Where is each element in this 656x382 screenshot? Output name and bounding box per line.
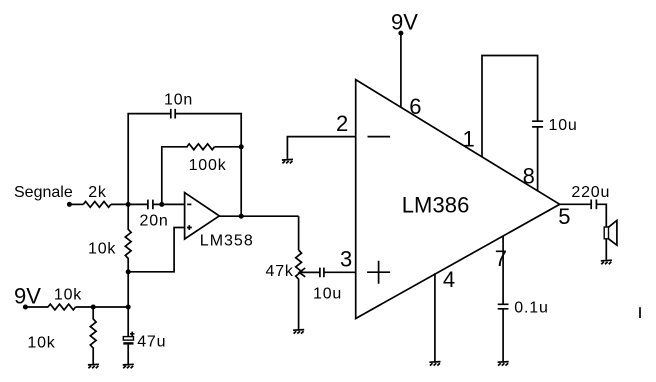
ground pin7 — [498, 362, 509, 366]
wire node B to op-amp minus input — [162, 203, 185, 205]
pot wiper arrow — [299, 268, 305, 277]
svg-text:3: 3 — [340, 247, 352, 272]
svg-text:8: 8 — [523, 163, 535, 188]
svg-text:0.1u: 0.1u — [514, 299, 548, 316]
capacitor 10u coupling — [320, 268, 324, 278]
resistor 100k — [187, 144, 215, 150]
svg-text:6: 6 — [409, 94, 421, 119]
wire 2k to node A — [111, 203, 128, 205]
svg-text:100k: 100k — [189, 157, 227, 174]
svg-text:10k: 10k — [54, 286, 82, 303]
ground 47u — [123, 364, 134, 368]
wire divider node to cap node — [93, 306, 128, 308]
wire 100k left leg — [162, 147, 188, 205]
capacitor 220u — [591, 200, 596, 210]
ground divider — [88, 364, 99, 368]
node divider junction — [91, 305, 96, 310]
svg-text:10u: 10u — [313, 286, 342, 303]
wire pin 4 to ground — [434, 273, 436, 361]
wire pin 5 output — [560, 203, 591, 205]
wire wiper to 10u — [299, 271, 320, 273]
wire 10n loop left and top — [128, 114, 241, 205]
amplifier U2 LM386 — [356, 80, 560, 319]
svg-text:10k: 10k — [88, 241, 116, 258]
svg-text:1: 1 — [463, 127, 475, 152]
node 9V left terminal — [23, 305, 28, 310]
wire output node down to pot — [298, 216, 300, 250]
capacitor 10n — [171, 109, 175, 119]
capacitor 20n — [148, 200, 153, 210]
potentiometer 47k — [296, 250, 302, 329]
svg-text:10n: 10n — [164, 91, 193, 108]
ground pot — [293, 330, 304, 334]
resistor 10k series from 9V — [48, 304, 76, 310]
node Segnale input terminal — [67, 202, 72, 207]
stray mark cursor — [639, 307, 641, 318]
op-amp U1 LM358 — [185, 193, 220, 239]
LM386 plus sign pin3 — [367, 261, 390, 284]
wire pin 1 up — [482, 56, 538, 157]
wire 100k to node — [215, 146, 242, 148]
capacitor 47u electrolytic — [127, 307, 129, 336]
node A junction — [126, 202, 131, 207]
resistor 10k signal bias — [125, 204, 131, 271]
wire 10u to pin 3 — [324, 271, 356, 273]
svg-text:4: 4 — [443, 267, 455, 292]
svg-text:5: 5 — [558, 204, 570, 229]
wire 9V to 10k — [25, 306, 48, 308]
wire 10u to pin 8 — [537, 127, 539, 191]
ground pin4 — [429, 362, 440, 366]
node bias junction — [126, 269, 131, 274]
wire node A to 20n — [128, 203, 148, 205]
svg-text:9V: 9V — [391, 10, 418, 35]
capacitor 0.1u — [498, 304, 509, 309]
op-amp minus sign — [187, 203, 191, 205]
svg-text:47u: 47u — [137, 333, 166, 350]
svg-text:2k: 2k — [88, 184, 107, 201]
ground speaker — [601, 260, 612, 264]
svg-text:47k: 47k — [266, 263, 294, 280]
svg-text:7: 7 — [495, 246, 507, 271]
node cap junction — [126, 305, 131, 310]
svg-text:10k: 10k — [27, 335, 55, 352]
wire pin 2 to ground — [287, 137, 355, 159]
node output junction — [239, 214, 244, 219]
svg-text:LM358: LM358 — [200, 233, 254, 250]
wire 220u to speaker — [597, 204, 607, 227]
node B junction — [159, 202, 164, 207]
wire 0.1u to ground — [502, 309, 504, 361]
svg-text:20n: 20n — [140, 212, 169, 229]
node junction 100k right — [239, 144, 244, 149]
wire 47u to ground — [127, 345, 129, 364]
resistor 2k — [83, 202, 111, 208]
svg-text:2: 2 — [336, 111, 348, 136]
LM386 minus sign pin2 — [368, 136, 391, 138]
wire input to R 2k — [69, 203, 83, 205]
svg-text:10u: 10u — [549, 117, 578, 134]
svg-text:LM386: LM386 — [402, 193, 470, 218]
wire 9V to pin 6 — [400, 33, 402, 107]
ground pin2 — [282, 159, 293, 163]
capacitor 10u gain — [532, 121, 543, 127]
wire op-amp plus input to bias node — [128, 228, 184, 272]
wire feedback vertical down to output node — [240, 147, 242, 216]
wire pin 7 down — [502, 236, 504, 304]
op-amp plus sign — [187, 225, 192, 230]
speaker LS1 — [604, 227, 608, 239]
wire 20n to node B — [153, 203, 162, 205]
wire speaker to ground — [605, 239, 607, 260]
node 9V top terminal — [398, 31, 403, 36]
resistor 10k to ground — [90, 307, 96, 364]
svg-text:9V: 9V — [14, 283, 41, 308]
wire bias node down — [127, 272, 129, 307]
svg-text:Segnale: Segnale — [14, 184, 73, 201]
wire op-amp output — [219, 215, 298, 217]
svg-text:220u: 220u — [571, 184, 610, 201]
wire 10k to divider node — [76, 306, 94, 308]
